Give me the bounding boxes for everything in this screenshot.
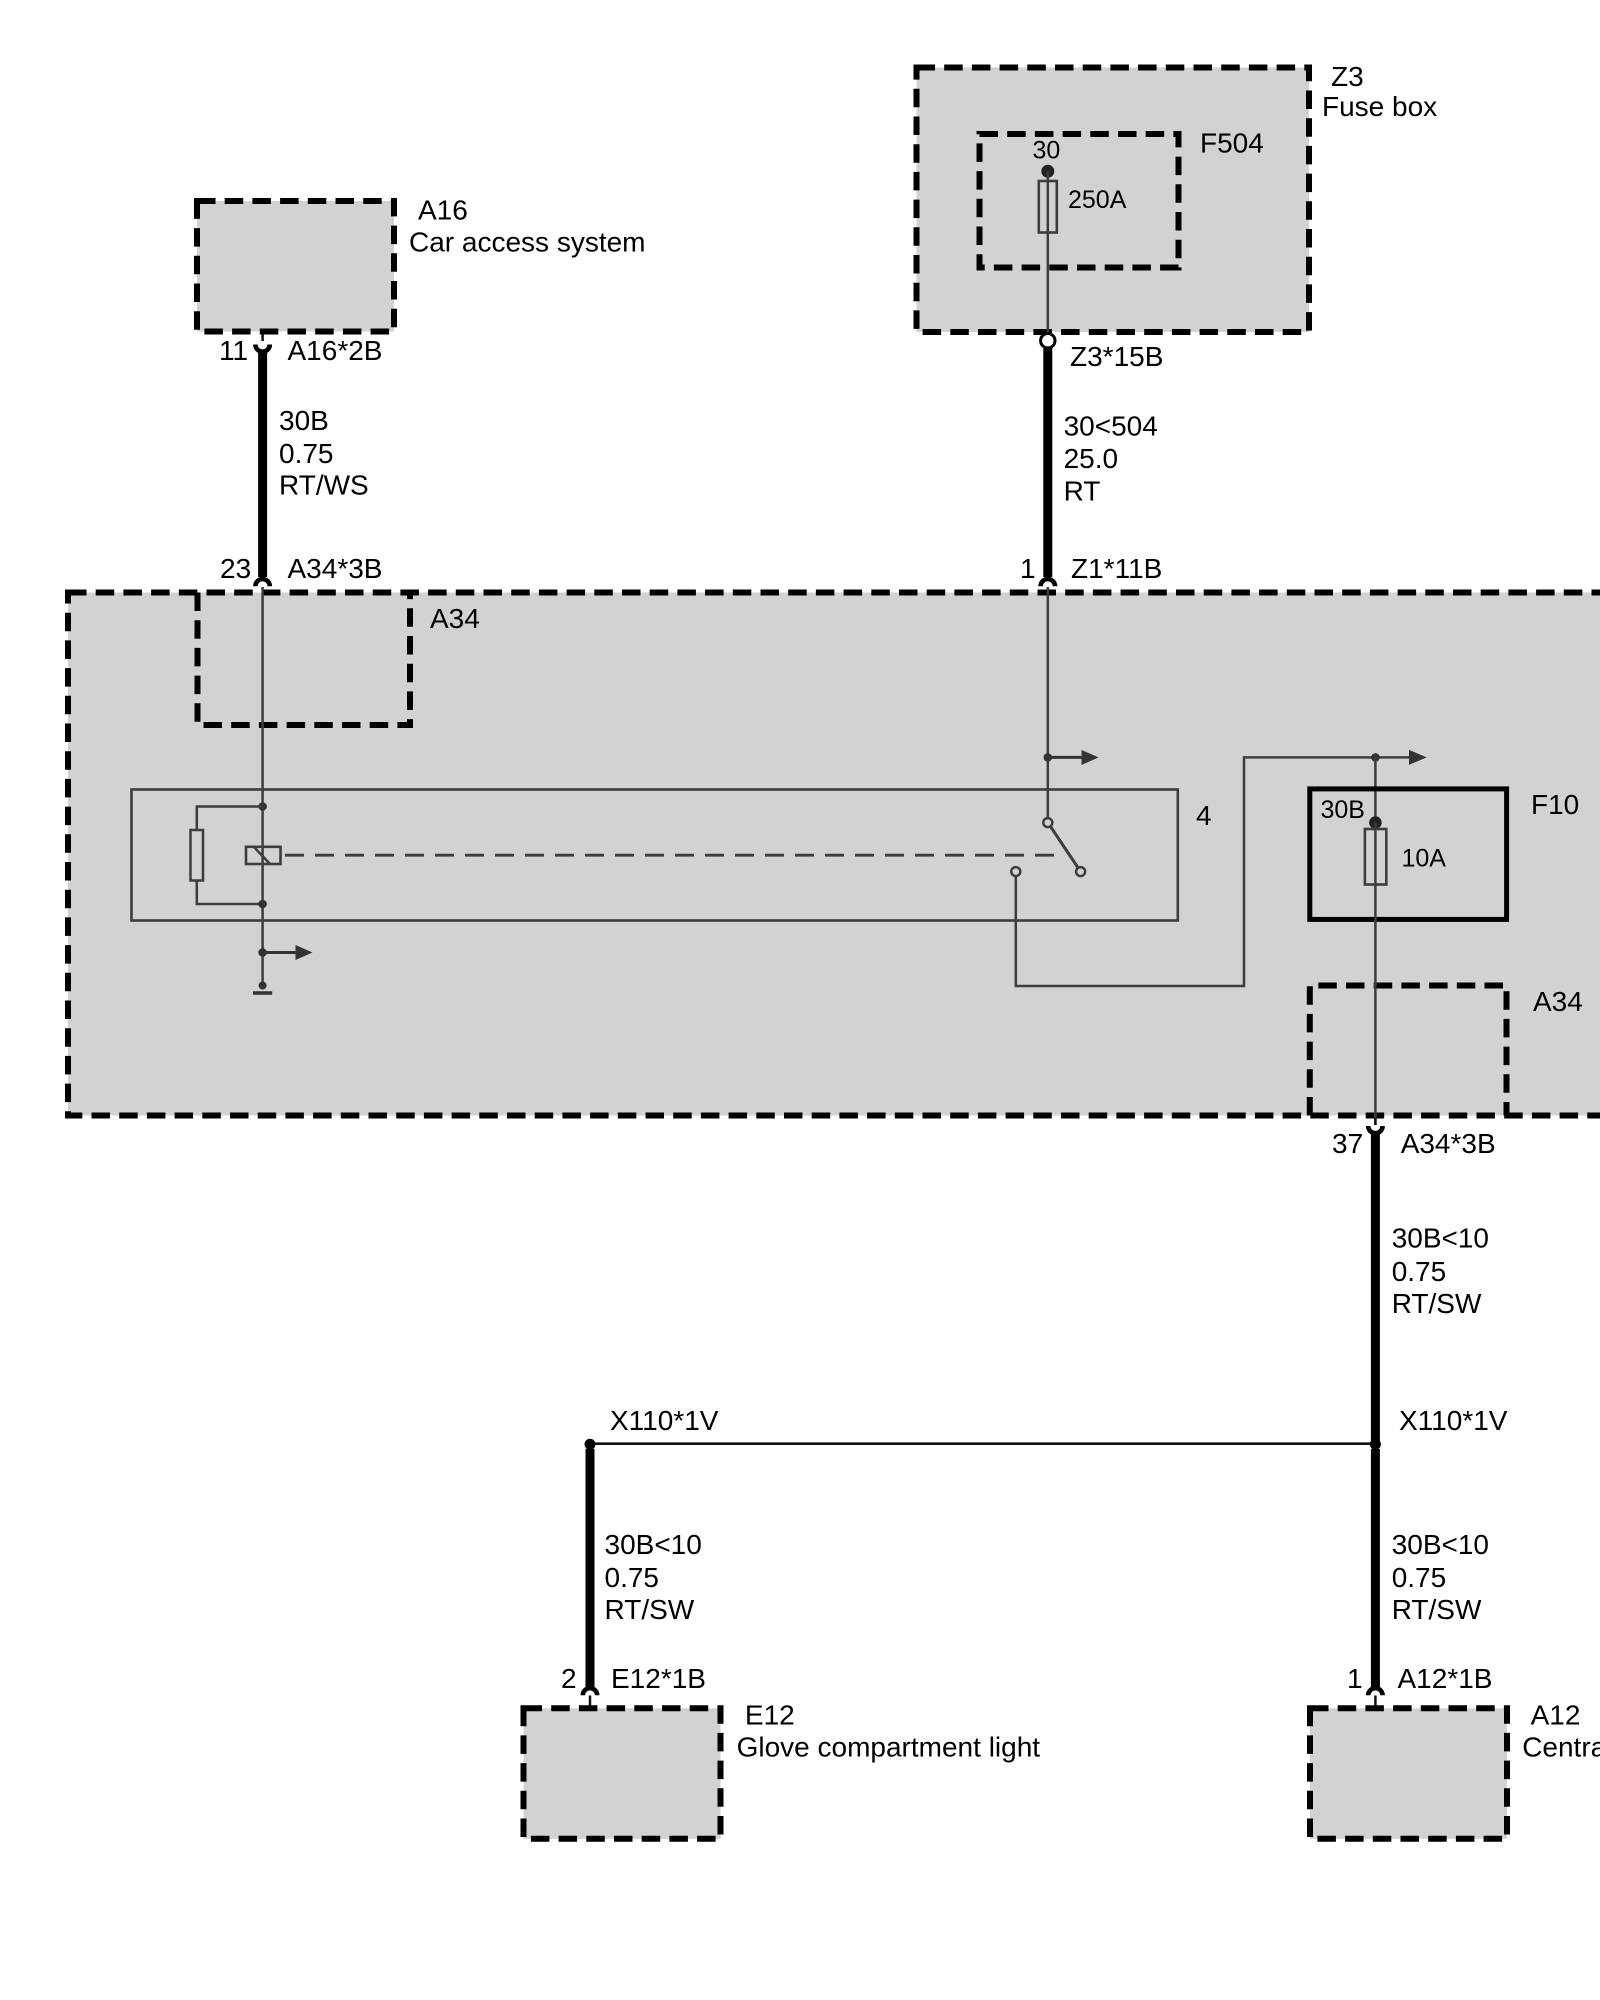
pin 23 connector A34*3B — [220, 553, 382, 586]
pin 11 connector A16*2B — [219, 334, 382, 366]
svg-text:0.75: 0.75 — [279, 438, 334, 469]
svg-text:30<504: 30<504 — [1064, 411, 1158, 442]
connector Z3*15B (open circle terminal) — [1041, 334, 1164, 373]
svg-text:4: 4 — [1196, 800, 1212, 831]
svg-text:0.75: 0.75 — [605, 1562, 660, 1593]
wire (thin, pin 23 down to relay coil) — [261, 587, 264, 807]
svg-text:25.0: 25.0 — [1064, 443, 1119, 474]
svg-text:RT/SW: RT/SW — [1392, 1594, 1482, 1625]
component box Z3 (Fuse box) — [917, 61, 1438, 332]
svg-text:0.75: 0.75 — [1392, 1256, 1447, 1287]
pin 2 connector E12*1B — [561, 1663, 706, 1706]
relay coil K1 — [246, 847, 281, 864]
connector block A34*3B (top-left sub-box) — [198, 593, 411, 726]
svg-text:Car access system: Car access system — [409, 227, 646, 258]
svg-text:1: 1 — [1347, 1663, 1363, 1694]
wire 30B<10 0.75 RT/SW (thick, X110 to E12) — [590, 1449, 702, 1687]
svg-text:A12: A12 — [1531, 1700, 1581, 1731]
svg-text:F504: F504 — [1200, 128, 1264, 159]
svg-text:A12*1B: A12*1B — [1398, 1663, 1493, 1694]
svg-text:E12*1B: E12*1B — [611, 1663, 706, 1694]
wire (thin, pin 1 down to switch pivot) — [1047, 587, 1050, 819]
svg-text:10A: 10A — [1402, 845, 1447, 873]
pin 1 connector Z1*11B — [1020, 553, 1162, 586]
svg-text:A34*3B: A34*3B — [1401, 1128, 1496, 1159]
svg-text:A34: A34 — [1533, 986, 1583, 1017]
svg-text:A34: A34 — [430, 603, 480, 634]
node (relay top junction) — [258, 802, 267, 811]
svg-text:Glove compartment light: Glove compartment light — [737, 1732, 1041, 1763]
wire (from fixed contact to F10 feed) — [1016, 757, 1409, 986]
svg-text:Z3: Z3 — [1331, 61, 1364, 92]
svg-text:2: 2 — [561, 1663, 577, 1694]
svg-text:RT/WS: RT/WS — [279, 470, 369, 501]
svg-text:Fuse box: Fuse box — [1322, 91, 1437, 122]
svg-text:X110*1V: X110*1V — [610, 1405, 719, 1436]
svg-text:30B<10: 30B<10 — [605, 1529, 702, 1560]
switch contact 4 (relay contact) — [1011, 818, 1085, 876]
pin 37 connector A34*3B (bottom) — [1332, 1118, 1496, 1159]
wire 30B<10 0.75 RT/SW (thick, X110 to A12) — [1375, 1449, 1489, 1687]
connector block A34 (bottom-right sub-box) — [1310, 986, 1583, 1116]
node (junction above F10) — [1371, 753, 1380, 762]
svg-text:0.75: 0.75 — [1392, 1562, 1447, 1593]
svg-text:RT/SW: RT/SW — [605, 1594, 695, 1625]
svg-text:1: 1 — [1020, 553, 1036, 584]
relay K (inner block outline) — [132, 790, 1178, 921]
node (relay bottom junction) — [258, 900, 267, 909]
svg-text:RT/SW: RT/SW — [1392, 1288, 1482, 1319]
svg-text:Central locking: Central locking — [1522, 1732, 1600, 1763]
wire (resistor branch) — [197, 807, 263, 905]
svg-text:RT: RT — [1064, 476, 1101, 507]
svg-text:11: 11 — [219, 335, 248, 366]
component box E12 (Glove compartment light) — [524, 1700, 1041, 1839]
svg-text:X110*1V: X110*1V — [1399, 1405, 1508, 1436]
svg-text:30B: 30B — [1321, 796, 1365, 824]
svg-text:250A: 250A — [1068, 186, 1127, 214]
svg-text:Z3*15B: Z3*15B — [1070, 341, 1163, 372]
fuse F10 — [1310, 789, 1579, 1125]
svg-text:F10: F10 — [1531, 789, 1579, 820]
wire 30B 0.75 RT/WS (thick) — [263, 353, 369, 578]
svg-text:E12: E12 — [745, 1700, 795, 1731]
svg-text:A16: A16 — [418, 195, 468, 226]
svg-text:30B: 30B — [279, 405, 329, 436]
node (junction with arrow, terminal 30 feed) — [1044, 753, 1053, 762]
node (ground branch junction with arrow) — [258, 948, 267, 957]
fuse F504 — [980, 128, 1264, 334]
wire (thin, through coil down to ground) — [261, 807, 264, 986]
node X110*1V (splice, horizontal link) — [585, 1405, 1508, 1450]
svg-text:A16*2B: A16*2B — [288, 335, 383, 366]
svg-text:30B<10: 30B<10 — [1392, 1529, 1489, 1560]
wire (arrow stub) — [263, 951, 296, 954]
svg-text:37: 37 — [1332, 1128, 1363, 1159]
pin 1 connector A12*1B — [1347, 1663, 1492, 1706]
wire 30<504 25.0 RT (thick) — [1048, 349, 1158, 578]
control unit A34 (main box) — [68, 593, 1600, 1116]
wire (arrow stub) — [1048, 756, 1082, 759]
svg-text:A34*3B: A34*3B — [288, 553, 383, 584]
resistor R1 — [191, 830, 204, 881]
svg-text:23: 23 — [220, 553, 251, 584]
svg-text:Z1*11B: Z1*11B — [1071, 553, 1162, 584]
svg-text:30B<10: 30B<10 — [1392, 1223, 1489, 1254]
wire (dashed mechanical link) — [285, 854, 1060, 857]
component box A16 (Car access system) — [197, 195, 646, 332]
ground — [253, 982, 272, 994]
svg-text:30: 30 — [1033, 137, 1061, 165]
component box A12 (Central ...) — [1310, 1700, 1600, 1839]
wire (thin, junction into fuse F10) — [1374, 757, 1377, 822]
wire 30B<10 0.75 RT/SW (thick, pin 37 to X110) — [1375, 1134, 1489, 1444]
